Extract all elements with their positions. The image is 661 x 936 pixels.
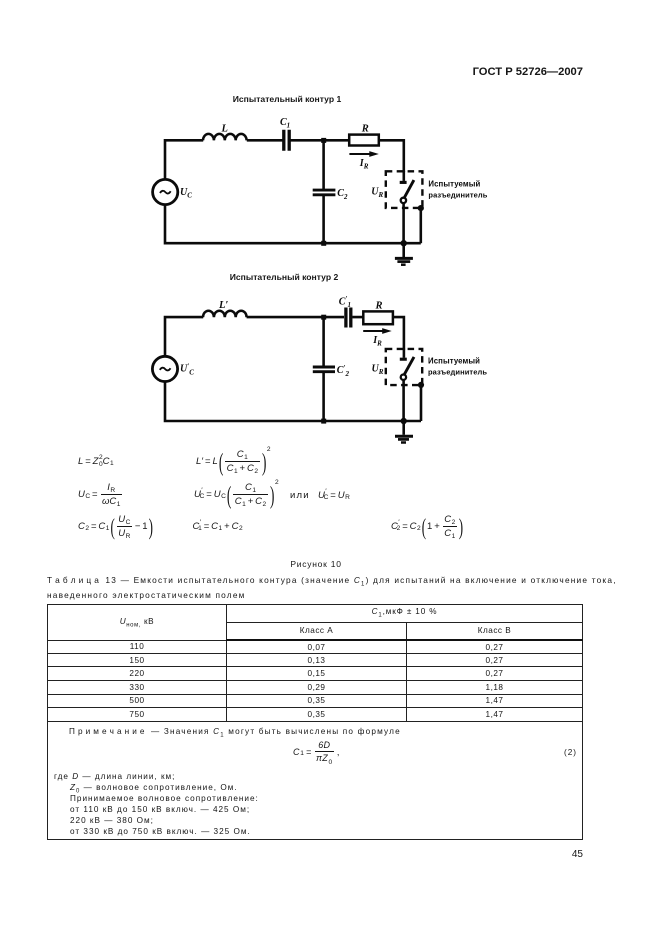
svg-text:Испытуемый: Испытуемый xyxy=(428,356,480,365)
equation number (2) xyxy=(564,748,577,757)
junction dot enclosure corner circuit2 xyxy=(418,382,424,388)
wire: C2 branch vertical xyxy=(322,140,325,243)
formula U_C = I_R/(wC1) xyxy=(78,479,123,509)
svg-text:Испытуемый: Испытуемый xyxy=(428,180,480,189)
svg-text:разъединитель: разъединитель xyxy=(428,367,487,376)
circuit 2 title xyxy=(209,272,359,282)
capacitor C'1 xyxy=(346,308,351,328)
ground circuit1 xyxy=(395,243,413,265)
svg-text:C′1: C′1 xyxy=(339,295,351,309)
switch Q1 hinge circle xyxy=(401,198,406,203)
wire: C'2 branch vertical xyxy=(322,317,325,421)
wire: switch1 bottom lead xyxy=(402,203,405,243)
current arrow I_R xyxy=(349,151,378,157)
formula L = Z0^2 C1 xyxy=(78,446,114,476)
svg-text:L′: L′ xyxy=(218,300,228,311)
switch Q2 fixed contact stub and tick xyxy=(400,349,407,360)
formula U'_C = U_C(C1/(C1+C2))^2 xyxy=(194,479,279,509)
svg-text:C1: C1 xyxy=(280,117,290,130)
source U'_C circle xyxy=(152,356,177,381)
inductor L xyxy=(203,134,247,140)
formula C2 = C1(U_C/U_R - 1) xyxy=(78,511,154,541)
page number 45 xyxy=(520,849,583,860)
wire: enclosure frame link to bottom circuit1 xyxy=(419,208,422,243)
capacitor C2 plates xyxy=(313,190,336,195)
wire: switch2 bottom lead xyxy=(402,380,405,421)
formula C'1 = C1 + C2 xyxy=(193,511,243,541)
junction dot bottom of C2 branch xyxy=(321,241,326,246)
switch Q2 hinge circle xyxy=(401,375,406,380)
примечание heading xyxy=(69,727,401,739)
node B junction dot (top of C'2 branch) xyxy=(321,315,326,320)
wire: circuit1 top segment C1->node->R and right drop xyxy=(290,140,404,172)
svg-text:U′C: U′C xyxy=(180,362,194,376)
svg-text:UC: UC xyxy=(180,187,192,200)
circuit 1 title xyxy=(212,94,362,104)
svg-text:R: R xyxy=(361,124,369,135)
svg-text:C′2: C′2 xyxy=(337,364,350,378)
svg-text:R: R xyxy=(375,300,383,311)
capacitor C'2 plates xyxy=(313,367,335,372)
resistor R circuit2 xyxy=(363,311,393,324)
resistor R xyxy=(349,135,379,146)
svg-text:C2: C2 xyxy=(337,188,348,201)
junction dot enclosure corner circuit1 xyxy=(418,205,424,211)
junction dot at ground tap circuit2 xyxy=(401,418,407,424)
inductor L' xyxy=(203,311,247,318)
svg-text:IR: IR xyxy=(372,335,382,348)
svg-text:UR: UR xyxy=(371,186,383,199)
svg-text:UR: UR xyxy=(372,363,384,376)
formula или xyxy=(290,480,310,510)
switch Q1 fixed contact stub and tick xyxy=(400,171,407,182)
dashed enclosure (device under test) circuit1 xyxy=(386,171,423,208)
svg-text:IR: IR xyxy=(359,158,369,171)
page header ГОСТ Р 52726—2007 xyxy=(382,66,583,78)
figure caption Рисунок 10 xyxy=(241,559,391,569)
current arrow I_R circuit2 xyxy=(363,328,392,334)
node A junction dot (top of C2 branch) xyxy=(321,138,326,143)
source tilde xyxy=(160,191,171,194)
switch Q1 blade xyxy=(403,180,414,199)
formula L' = L(C1/(C1+C2))^2 xyxy=(196,446,271,476)
source U_C circle xyxy=(153,179,178,204)
table caption xyxy=(47,575,627,600)
svg-text:L: L xyxy=(221,123,228,134)
wire: circuit2 C'1->R->right drop xyxy=(352,317,404,349)
formula C1 = 6D/(piZ0) xyxy=(293,738,340,766)
wire: circuit1 outer loop (top-left, left vertical, bottom wire) xyxy=(165,140,421,243)
wire: circuit2 top run inductor->node->C'1 xyxy=(247,316,344,319)
wire: enclosure frame link to bottom circuit2 xyxy=(420,385,423,421)
Таблица 13 xyxy=(47,604,583,840)
source tilde circuit2 xyxy=(160,368,171,371)
formula C'2 = C2(1 + C2/C1) xyxy=(391,511,464,541)
где block xyxy=(54,772,175,781)
svg-text:разъединитель: разъединитель xyxy=(428,191,487,200)
ground circuit2 xyxy=(395,421,413,443)
formula U'_C = U_R xyxy=(318,480,350,510)
junction dot at ground tap circuit1 xyxy=(401,240,407,246)
capacitor C1 xyxy=(284,130,289,151)
junction dot bottom of C'2 branch xyxy=(321,419,326,424)
switch Q2 blade xyxy=(403,357,414,376)
wire: circuit2 outer loop xyxy=(165,317,421,421)
dashed enclosure (device under test) circuit2 xyxy=(386,349,422,385)
